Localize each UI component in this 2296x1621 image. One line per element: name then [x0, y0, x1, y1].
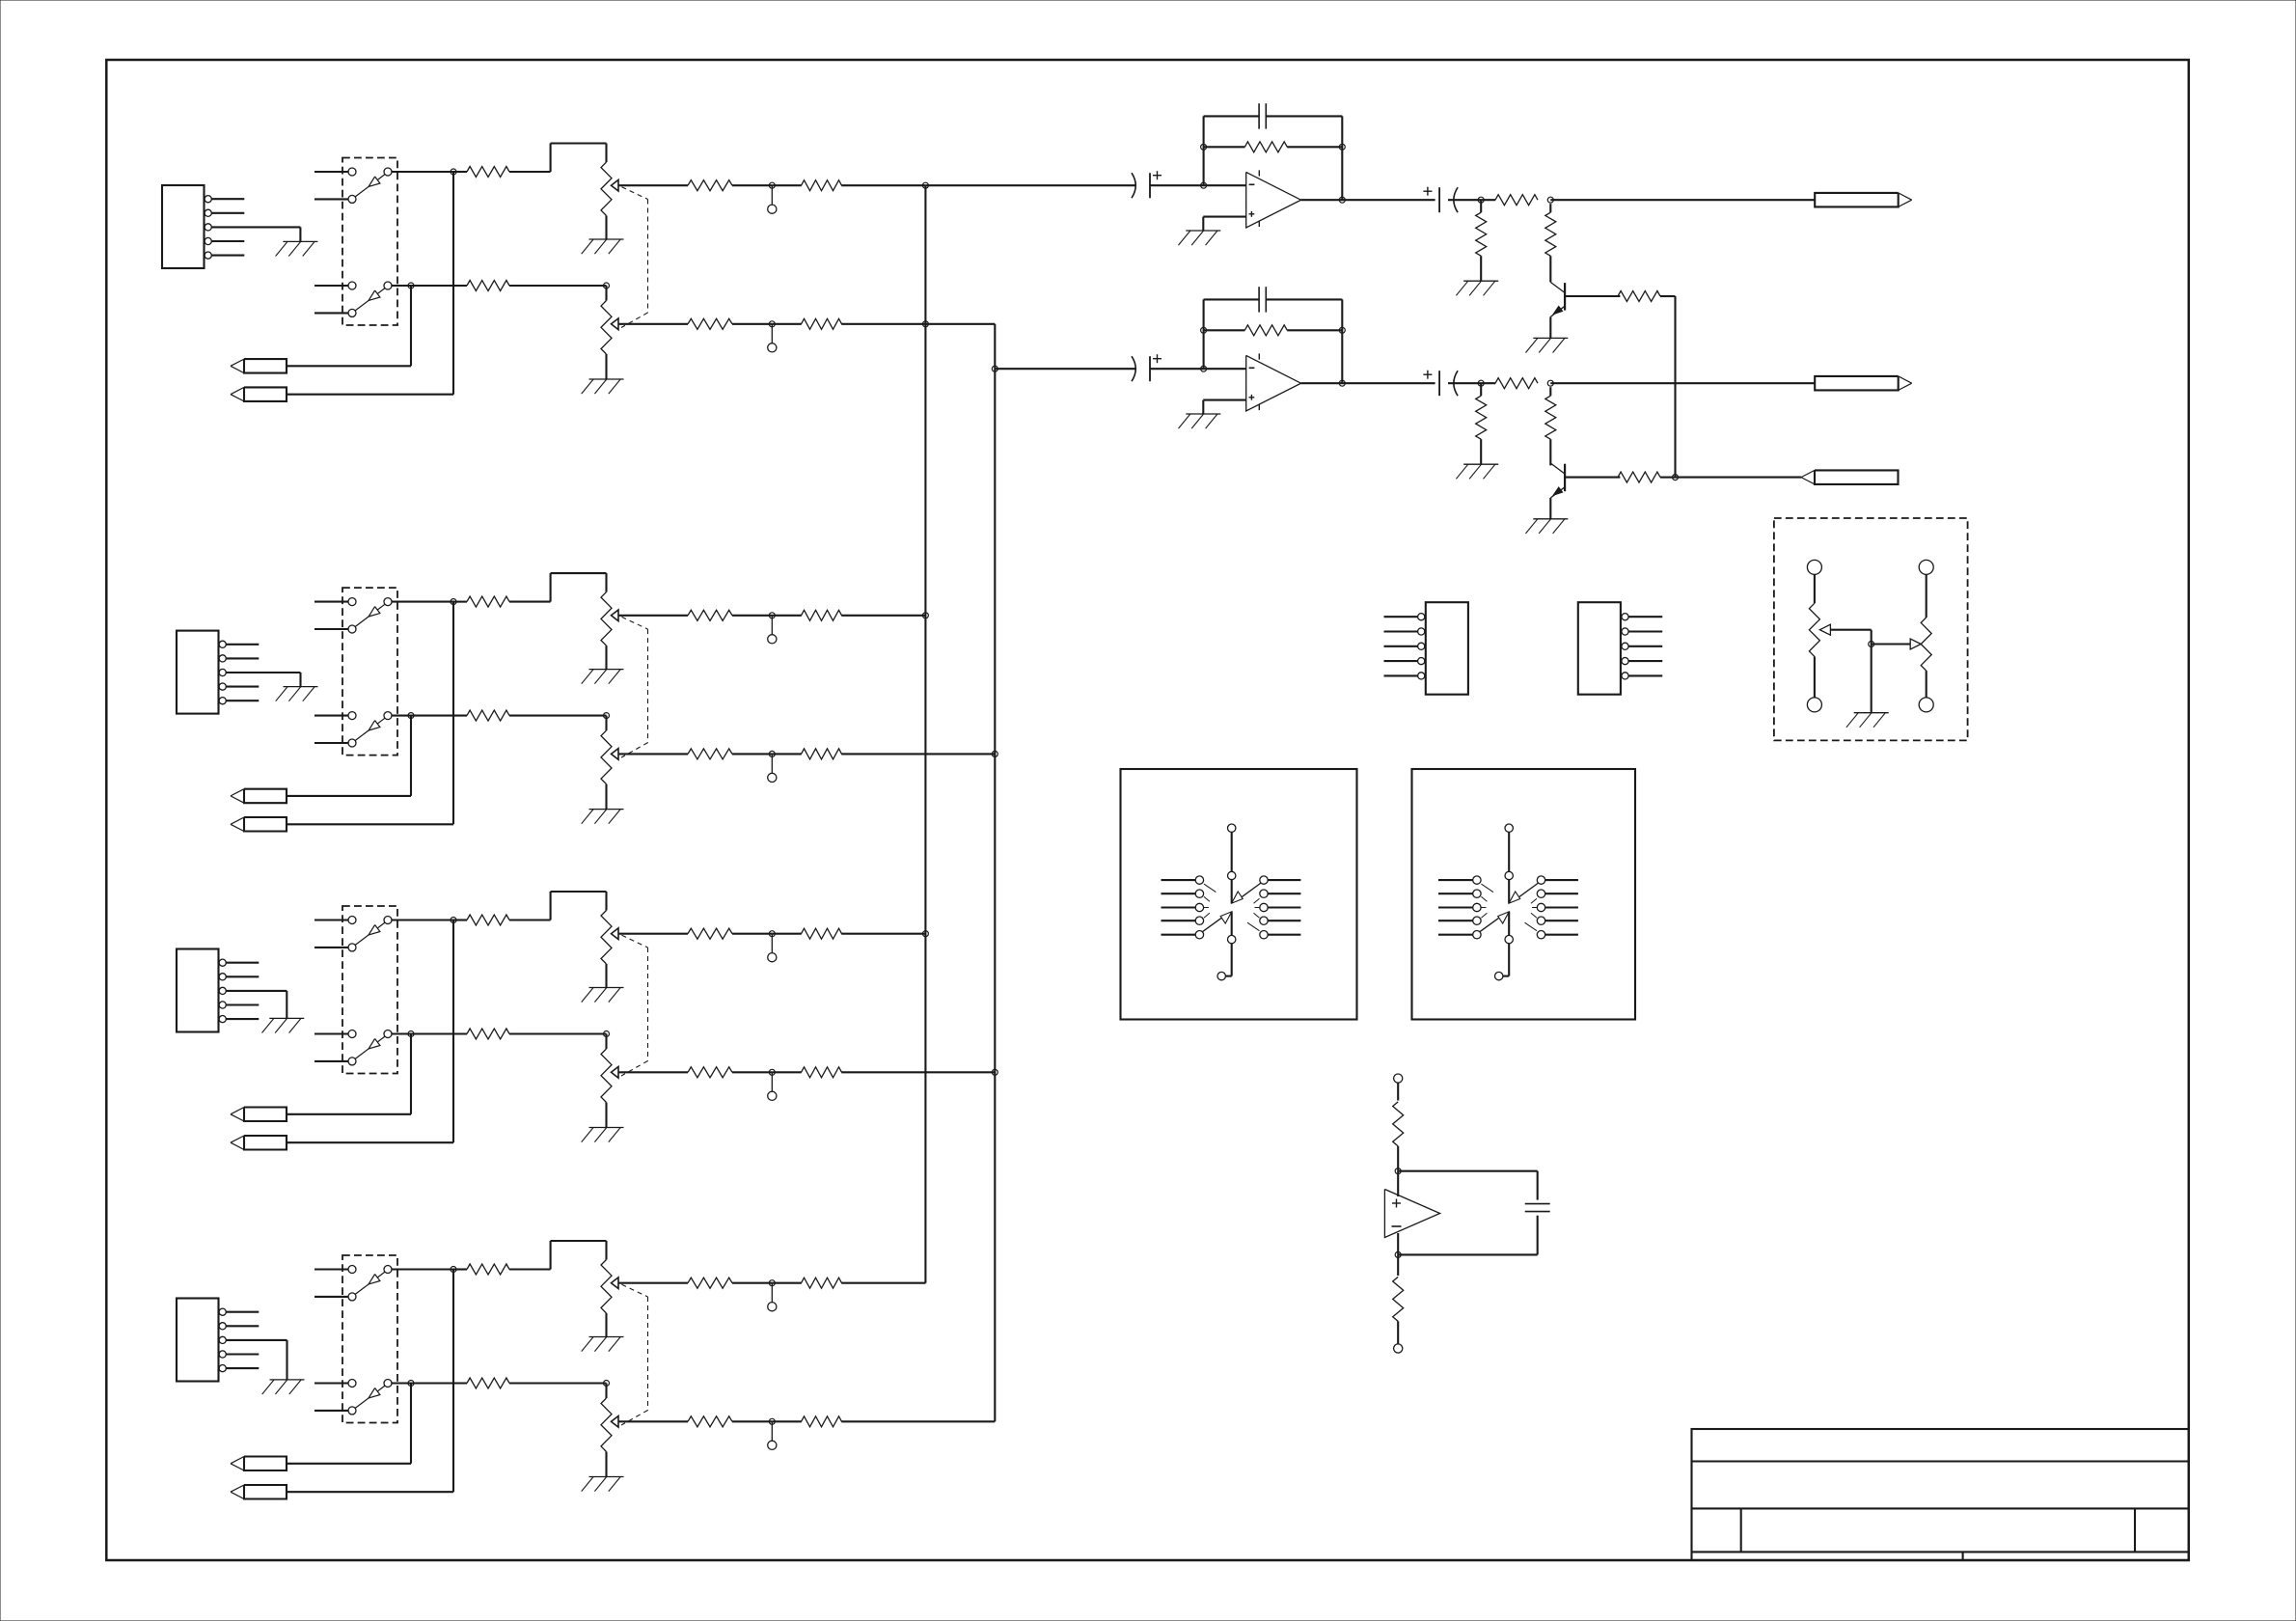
terminal circle V+ (ref divider top)	[1394, 1074, 1403, 1083]
switch S1B (SPDT, lower)	[348, 282, 392, 316]
resistor R1h (series)	[1495, 195, 1538, 206]
wire P1a to node B1	[287, 286, 412, 366]
wire R2g to ground	[1480, 439, 1482, 464]
wire node A2 to R2a	[453, 601, 467, 603]
wire R1a to pot VR1a top (step-over)	[509, 144, 607, 173]
feedback left wire U1	[1203, 116, 1205, 185]
ground at U2 + input	[1179, 414, 1221, 428]
wire VR3b bottom to ground	[605, 1103, 607, 1128]
resistor R1a (series, upper)	[467, 167, 509, 178]
feedback left wire U2	[1203, 299, 1205, 369]
wire R1c to test point node	[732, 184, 772, 186]
S6 rotary contact guide ticks	[1481, 884, 1537, 931]
resistor R3e (wiper series 1, lower)	[688, 1067, 732, 1078]
wire VR9 top	[1814, 574, 1816, 603]
switch S2 dashed outline box	[342, 588, 397, 756]
ground at U1 + input	[1179, 231, 1221, 245]
potentiometer VR3a (volume, upper)	[601, 911, 618, 965]
test point TP4a	[768, 1283, 777, 1311]
node T3b (test tap)	[769, 1069, 775, 1075]
node bus R tap to U2	[992, 366, 998, 371]
wire R1g to ground	[1480, 256, 1482, 281]
node U2 inverting input	[1201, 366, 1207, 371]
ground below VR2a	[582, 670, 624, 684]
input jack arrow P2b	[231, 817, 287, 832]
ground at Q2 emitter	[1526, 519, 1569, 534]
title block divider a	[1740, 1508, 1742, 1552]
capacitor C2c (output coupling, polarized)	[1423, 371, 1458, 397]
switch S4A (SPDT, upper)	[348, 1266, 392, 1301]
op-amp U1 (summing)	[1246, 170, 1301, 228]
ground below VR4a	[582, 1337, 624, 1352]
transistor Q2 (NPN emitter follower)	[1550, 463, 1565, 519]
wire S4B output to node B4	[392, 1382, 411, 1384]
wire node to R4d	[772, 1282, 802, 1284]
input jack arrow P4b	[231, 1485, 287, 1499]
ground for connector J1	[276, 241, 318, 256]
node K2b	[1547, 380, 1553, 386]
wire R2e to test node	[732, 753, 772, 755]
capacitor C1b (feedback)	[1259, 103, 1266, 128]
test point TP4b	[768, 1421, 777, 1449]
resistor R2d (wiper series 2)	[802, 610, 842, 620]
resistor R2i (to transistor)	[1545, 396, 1556, 439]
node B3 (junction)	[408, 1031, 414, 1037]
node feedback res left U2	[1201, 327, 1207, 333]
resistor R2c (wiper series 1)	[688, 610, 732, 620]
ground for connector J4	[262, 1380, 305, 1394]
node T1a (test tap)	[769, 182, 775, 188]
wire K2a into R2g	[1480, 383, 1482, 396]
resistor R1b (series, lower)	[467, 281, 509, 291]
wire VR2b bottom to ground	[605, 784, 607, 810]
switch S2B (SPDT, lower)	[348, 712, 392, 747]
S6 rotary upper wiper arm	[1509, 883, 1538, 903]
dashed gang link VR1a-VR1b	[621, 187, 648, 328]
switch S4A input stub wires	[314, 1270, 348, 1297]
node U2 output	[1339, 380, 1345, 386]
capacitor C2b (feedback)	[1259, 287, 1266, 312]
resistor R4e (wiper series 1, lower)	[688, 1416, 732, 1427]
wire P4a to node B4	[287, 1384, 412, 1464]
bus R vertical wire	[994, 324, 996, 1422]
trimmer VR10 terminal top	[1919, 560, 1933, 574]
S5 rotary lower wiper arm	[1202, 912, 1231, 932]
feedback right wire U1	[1341, 116, 1343, 200]
IC U3 body	[1426, 602, 1468, 695]
input jack arrow P4a	[231, 1457, 287, 1471]
node T4a (test tap)	[769, 1280, 775, 1286]
wire Rb2 to node Nq	[1660, 477, 1676, 479]
switch S4B input stub wires	[314, 1384, 348, 1411]
node bus R / ch3	[992, 1069, 998, 1075]
wire P4b to node A4	[287, 1270, 454, 1493]
S5 rotary top pin	[1228, 824, 1236, 871]
wire V+ to Rr1	[1397, 1083, 1399, 1100]
wire node B3 to R3b	[411, 1032, 467, 1034]
resistor R4b (series, lower)	[467, 1378, 509, 1388]
resistor Rb2 (base)	[1618, 472, 1660, 482]
ground below VR3b	[582, 1128, 624, 1142]
bus L vertical wire	[924, 185, 926, 1283]
wire P2a to node B2	[287, 716, 412, 796]
wire Q1 base to R-base	[1565, 295, 1620, 297]
potentiometer VR2b (volume, lower)	[601, 730, 618, 784]
capacitor C5 (ref bypass)	[1525, 1204, 1550, 1212]
wire node to R4f	[772, 1420, 802, 1422]
input jack arrow P2a	[231, 789, 287, 804]
node T1b (test tap)	[769, 321, 775, 327]
wire R1i to Q1 collector	[1549, 256, 1551, 282]
wire node B4 to R4b	[411, 1382, 467, 1384]
wire Q2 base to Rb2	[1565, 477, 1620, 479]
input jack arrow P3a	[231, 1108, 287, 1122]
wire S2A output to node A2	[392, 601, 453, 603]
wire R2a to pot VR2a top (step-over)	[509, 573, 607, 602]
dashed gang link VR2a-VR2b	[621, 617, 648, 757]
resistor R2f (wiper series 2, lower)	[802, 749, 842, 759]
wire K1b to output jack	[1550, 199, 1815, 201]
wire node to R3d	[772, 933, 802, 935]
wire S2B output to node B2	[392, 715, 411, 717]
node trimmer junction	[1869, 642, 1874, 647]
wire into VR2b	[605, 716, 607, 731]
wire cap to bottom rail	[1398, 1216, 1538, 1255]
input jack arrow P3b	[231, 1136, 287, 1150]
wire U2 output	[1301, 382, 1435, 384]
resistor R1c (wiper series 1)	[688, 180, 732, 191]
node U1 inverting input	[1201, 182, 1207, 188]
trimmer VR10 terminal bottom	[1919, 698, 1933, 712]
dashed gang link VR3a-VR3b	[621, 935, 648, 1076]
node T2b (test tap)	[769, 751, 775, 756]
wire from J2 pin 3 to ground	[226, 673, 300, 687]
output jack arrow CN2	[1815, 376, 1912, 391]
wire C2a to inverting input	[1150, 368, 1246, 370]
wire node B2 to R2b	[411, 715, 467, 717]
wire node A1 to R1a	[453, 171, 467, 173]
title block row line 2	[1692, 1507, 2189, 1509]
node T4b (test tap)	[769, 1418, 775, 1424]
wire R3e to test node	[732, 1071, 772, 1073]
feedback resistor branch U1	[1204, 146, 1343, 148]
wire VR1a bottom to ground	[605, 216, 607, 240]
trimmer VR9 wiper arrow	[1819, 624, 1830, 635]
resistor R2a (series, upper)	[467, 596, 509, 607]
resistor R2f (feedback)	[1244, 325, 1287, 336]
wire VR9 bottom	[1814, 656, 1816, 698]
resistor R1f (wiper series 2, lower)	[802, 318, 842, 329]
title block divider c	[1962, 1552, 1964, 1560]
resistor R4d (wiper series 2)	[802, 1278, 842, 1288]
node A1 (junction)	[451, 169, 456, 175]
resistor R2g (to ground)	[1476, 396, 1487, 439]
input jack arrow P1a	[231, 359, 287, 373]
IC U4 pin wires	[1628, 617, 1662, 675]
wire into VR4b	[605, 1384, 607, 1399]
IC U3 pins	[1418, 614, 1425, 679]
ground at Q1 emitter	[1526, 338, 1569, 352]
S5 rotary bottom pin	[1217, 944, 1232, 980]
node bus L / ch1 lower crossing	[922, 321, 928, 327]
ground below R2g	[1456, 464, 1498, 479]
node A3 (junction)	[451, 918, 456, 923]
IC U4 body	[1578, 602, 1621, 695]
switch S2A input stub wires	[314, 602, 348, 629]
wire bottom node to Rr2	[1397, 1254, 1399, 1276]
node feedback res right U1	[1339, 144, 1345, 150]
wire VR2b wiper to R2e	[618, 753, 688, 755]
wire R2i to Q2 collector	[1549, 439, 1551, 465]
test point TP3b	[768, 1072, 777, 1100]
connector J2 pin stub wires	[226, 645, 259, 701]
feedback cap branch wire U2	[1204, 298, 1343, 300]
node feedback res right U2	[1339, 327, 1345, 333]
wire VR1b wiper to R1e	[618, 323, 688, 325]
node Nq (base bias junction)	[1673, 475, 1679, 481]
wire C1c to load node	[1448, 199, 1495, 201]
wire VR4a wiper to R4c	[618, 1282, 688, 1284]
wire U5 bottom node	[1397, 1233, 1399, 1254]
S5 rotary switch box outline	[1121, 769, 1357, 1020]
node bus L / ch1	[922, 182, 928, 188]
resistor R4c (wiper series 1)	[688, 1278, 732, 1288]
wire R2c to test point node	[732, 615, 772, 617]
switch S2B input stub wires	[314, 716, 348, 743]
capacitor C2a (input coupling, polarized)	[1132, 354, 1162, 381]
wire node to R1f	[772, 323, 802, 325]
S6 rotary switch box outline	[1412, 769, 1636, 1020]
op-amp U2 (summing)	[1246, 353, 1301, 411]
node bus R / ch2	[992, 751, 998, 756]
wire node to R2f	[772, 753, 802, 755]
wire S1A output to node A1	[392, 171, 453, 173]
wire ref node into U5 + input	[1397, 1171, 1399, 1196]
wire into VR3b	[605, 1034, 607, 1050]
resistor R1d (wiper series 2)	[802, 180, 842, 191]
resistor R2b (series, lower)	[467, 710, 509, 721]
wire S4A output to node A4	[392, 1268, 453, 1270]
ground below VR1b	[582, 379, 624, 394]
connector J1 pin stub wires	[211, 199, 244, 255]
wire R4f to right bus	[841, 1420, 995, 1422]
wire P3a to node B3	[287, 1034, 412, 1114]
resistor Rr2 (divider lower)	[1393, 1277, 1404, 1321]
wire R3b to pot VR3b top	[509, 1032, 607, 1034]
S6 rotary lower common	[1505, 912, 1513, 944]
capacitor C1c (output coupling, polarized)	[1423, 187, 1458, 213]
node T3a (test tap)	[769, 931, 775, 937]
node ref mid	[1395, 1168, 1401, 1174]
node A2 (junction)	[451, 599, 456, 605]
wire node B1 to R1b	[411, 285, 467, 287]
resistor Rr1 (divider upper)	[1393, 1102, 1404, 1146]
wire U1 non-inverting input to ground	[1203, 217, 1245, 231]
switch S1 dashed outline box	[342, 158, 397, 326]
wire S3B output to node B3	[392, 1032, 411, 1034]
input jack arrow P1b	[231, 387, 287, 401]
wire VR2a bottom to ground	[605, 646, 607, 670]
wire VR4a bottom to ground	[605, 1313, 607, 1337]
title block outline	[1692, 1429, 2189, 1560]
wire VR3a wiper to R3c	[618, 933, 688, 935]
wire node to R2d	[772, 615, 802, 617]
resistor R3f (wiper series 2, lower)	[802, 1067, 842, 1078]
wire K2b into R2i	[1549, 387, 1551, 396]
ground below R1g	[1456, 281, 1498, 295]
ground below VR1a	[582, 239, 624, 254]
wire node to R1d	[772, 184, 802, 186]
op-amp U5 (reference buffer)	[1384, 1190, 1439, 1238]
connector J3 (channel 3 input header)	[177, 949, 226, 1032]
potentiometer VR2a (volume, upper)	[601, 592, 618, 646]
wire VR3b wiper to R3e	[618, 1071, 688, 1073]
S5 rotary upper wiper arm	[1232, 883, 1261, 903]
wire from J3 pin 3 to ground	[226, 991, 287, 1019]
ground for connector J2	[276, 687, 318, 701]
dashed gang link VR4a-VR4b	[621, 1284, 648, 1425]
S6 rotary right contacts	[1537, 876, 1578, 939]
wire VR2a wiper to R2c	[618, 615, 688, 617]
trimmer VR9 terminal top	[1807, 560, 1821, 574]
node K1b	[1547, 197, 1553, 203]
IC U4 pins	[1622, 614, 1628, 679]
node B2 (junction)	[408, 713, 414, 719]
wire K1a into R1g	[1480, 200, 1482, 212]
wire from J1 pin 3 to ground	[211, 227, 300, 241]
node U1 output	[1339, 197, 1345, 203]
node bus L / ch2	[922, 613, 928, 618]
output jack arrow CN3 (reversed)	[1801, 470, 1899, 484]
potentiometer VR4a (volume, upper)	[601, 1260, 618, 1314]
wire R2b to pot VR2b top	[509, 715, 607, 717]
wire R1d to left bus	[841, 184, 925, 186]
node bus L / ch3	[922, 931, 928, 937]
node at VR4b top	[604, 1381, 610, 1387]
wire R4a to pot VR4a top (step-over)	[509, 1241, 607, 1270]
wire VR1b bottom to ground	[605, 354, 607, 379]
title block row line 1	[1692, 1460, 2189, 1462]
wire P1b to node A1	[287, 172, 454, 395]
connector J2 (channel 2 input header)	[177, 631, 226, 714]
trimmer VR10 wiper arrow	[1910, 639, 1921, 649]
wire R2d to left bus	[841, 615, 925, 617]
node at VR3b top	[604, 1031, 610, 1037]
node at VR2b top	[604, 713, 610, 719]
node A4 (junction)	[451, 1267, 456, 1273]
test point TP2b	[768, 754, 777, 782]
switch S4B (SPDT, lower)	[348, 1380, 392, 1415]
wire R4c to test point node	[732, 1282, 772, 1284]
resistor R1g (to ground)	[1476, 212, 1487, 256]
wire S1B output to node B1	[392, 285, 411, 287]
switch S1B input stub wires	[314, 286, 348, 313]
resistor R2h (series)	[1495, 378, 1538, 389]
switch S4 dashed outline box	[342, 1255, 397, 1423]
output jack arrow CN1	[1815, 193, 1912, 207]
potentiometer VR1a (volume, upper)	[601, 162, 618, 216]
dual trimmer dashed box	[1774, 518, 1968, 740]
wire R3f to right bus	[841, 1071, 995, 1073]
S6 rotary upper common	[1505, 871, 1513, 903]
wire K2b to output jack	[1550, 382, 1815, 384]
potentiometer VR4b (volume, lower)	[601, 1398, 618, 1452]
wire K1b into R1i	[1549, 204, 1551, 212]
S5 rotary contact guide ticks	[1204, 884, 1260, 931]
feedback cap branch wire U1	[1204, 115, 1343, 117]
resistor Rb1 (base)	[1618, 291, 1660, 302]
wire C1a to inverting input	[1150, 184, 1246, 186]
ground below VR4b	[582, 1477, 624, 1492]
test point TP1a	[768, 185, 777, 213]
node K2a	[1478, 380, 1484, 386]
wire R1f to right bus	[841, 323, 995, 325]
wire S3A output to node A3	[392, 919, 453, 920]
wire R4b to pot VR4b top	[509, 1382, 607, 1384]
capacitor C1a (input coupling, polarized)	[1132, 171, 1162, 198]
resistor R1e (wiper series 1, lower)	[688, 318, 732, 329]
switch S3 dashed outline box	[342, 906, 397, 1074]
S6 rotary bottom pin	[1495, 944, 1510, 980]
node T2a (test tap)	[769, 613, 775, 618]
S5 rotary right contacts	[1260, 876, 1301, 939]
wire node Nq to output jack CN3	[1676, 477, 1802, 479]
resistor R4f (wiper series 2, lower)	[802, 1416, 842, 1427]
wire to VR10 wiper	[1872, 643, 1911, 645]
terminal circle V- (ref divider bottom)	[1394, 1344, 1403, 1353]
ground in trimmer box	[1846, 713, 1889, 728]
wire U1 output	[1301, 199, 1435, 201]
connector J4 (channel 4 input header)	[177, 1299, 226, 1382]
resistor R3d (wiper series 2)	[802, 928, 842, 939]
S5 rotary left contacts	[1162, 876, 1204, 939]
trimmer VR10 (right)	[1921, 618, 1931, 671]
switch S1A (SPDT, upper)	[348, 168, 392, 203]
resistor R1f (feedback)	[1244, 142, 1287, 152]
wire R1e to test node	[732, 323, 772, 325]
S5 rotary upper common	[1228, 871, 1236, 903]
wire Rr2 to V- terminal	[1397, 1321, 1399, 1344]
wire R1b to pot VR1b top	[509, 285, 607, 287]
switch S3B (SPDT, lower)	[348, 1030, 392, 1065]
test point TP3a	[768, 934, 777, 962]
node K1a	[1478, 197, 1484, 203]
title block divider b	[2134, 1508, 2136, 1552]
resistor R3a (series, upper)	[467, 915, 509, 925]
wire R4d to left bus	[841, 1282, 925, 1284]
resistor R4a (series, upper)	[467, 1264, 509, 1275]
wire VR10 bottom	[1926, 671, 1927, 698]
node B1 (junction)	[408, 283, 414, 288]
trimmer VR9 terminal bottom	[1807, 698, 1821, 712]
wire R3a to pot VR3a top (step-over)	[509, 892, 607, 920]
wire R3d to left bus	[841, 933, 925, 935]
wire node to R3f	[772, 1071, 802, 1073]
wire VR4b wiper to R4e	[618, 1420, 688, 1422]
ground below VR2b	[582, 810, 624, 824]
title block row line 3	[1692, 1551, 2189, 1552]
IC U3 pin wires	[1384, 617, 1418, 675]
wire R3c to test point node	[732, 933, 772, 935]
wire Rr1 to ref node	[1397, 1146, 1399, 1171]
node at VR1b top	[604, 283, 610, 288]
wire node A4 to R4a	[453, 1268, 467, 1270]
wire R2f to right bus	[841, 753, 995, 755]
node B4 (junction)	[408, 1381, 414, 1387]
switch S1A input stub wires	[314, 172, 348, 199]
wire node A3 to R3a	[453, 919, 467, 920]
switch S3B input stub wires	[314, 1034, 348, 1061]
